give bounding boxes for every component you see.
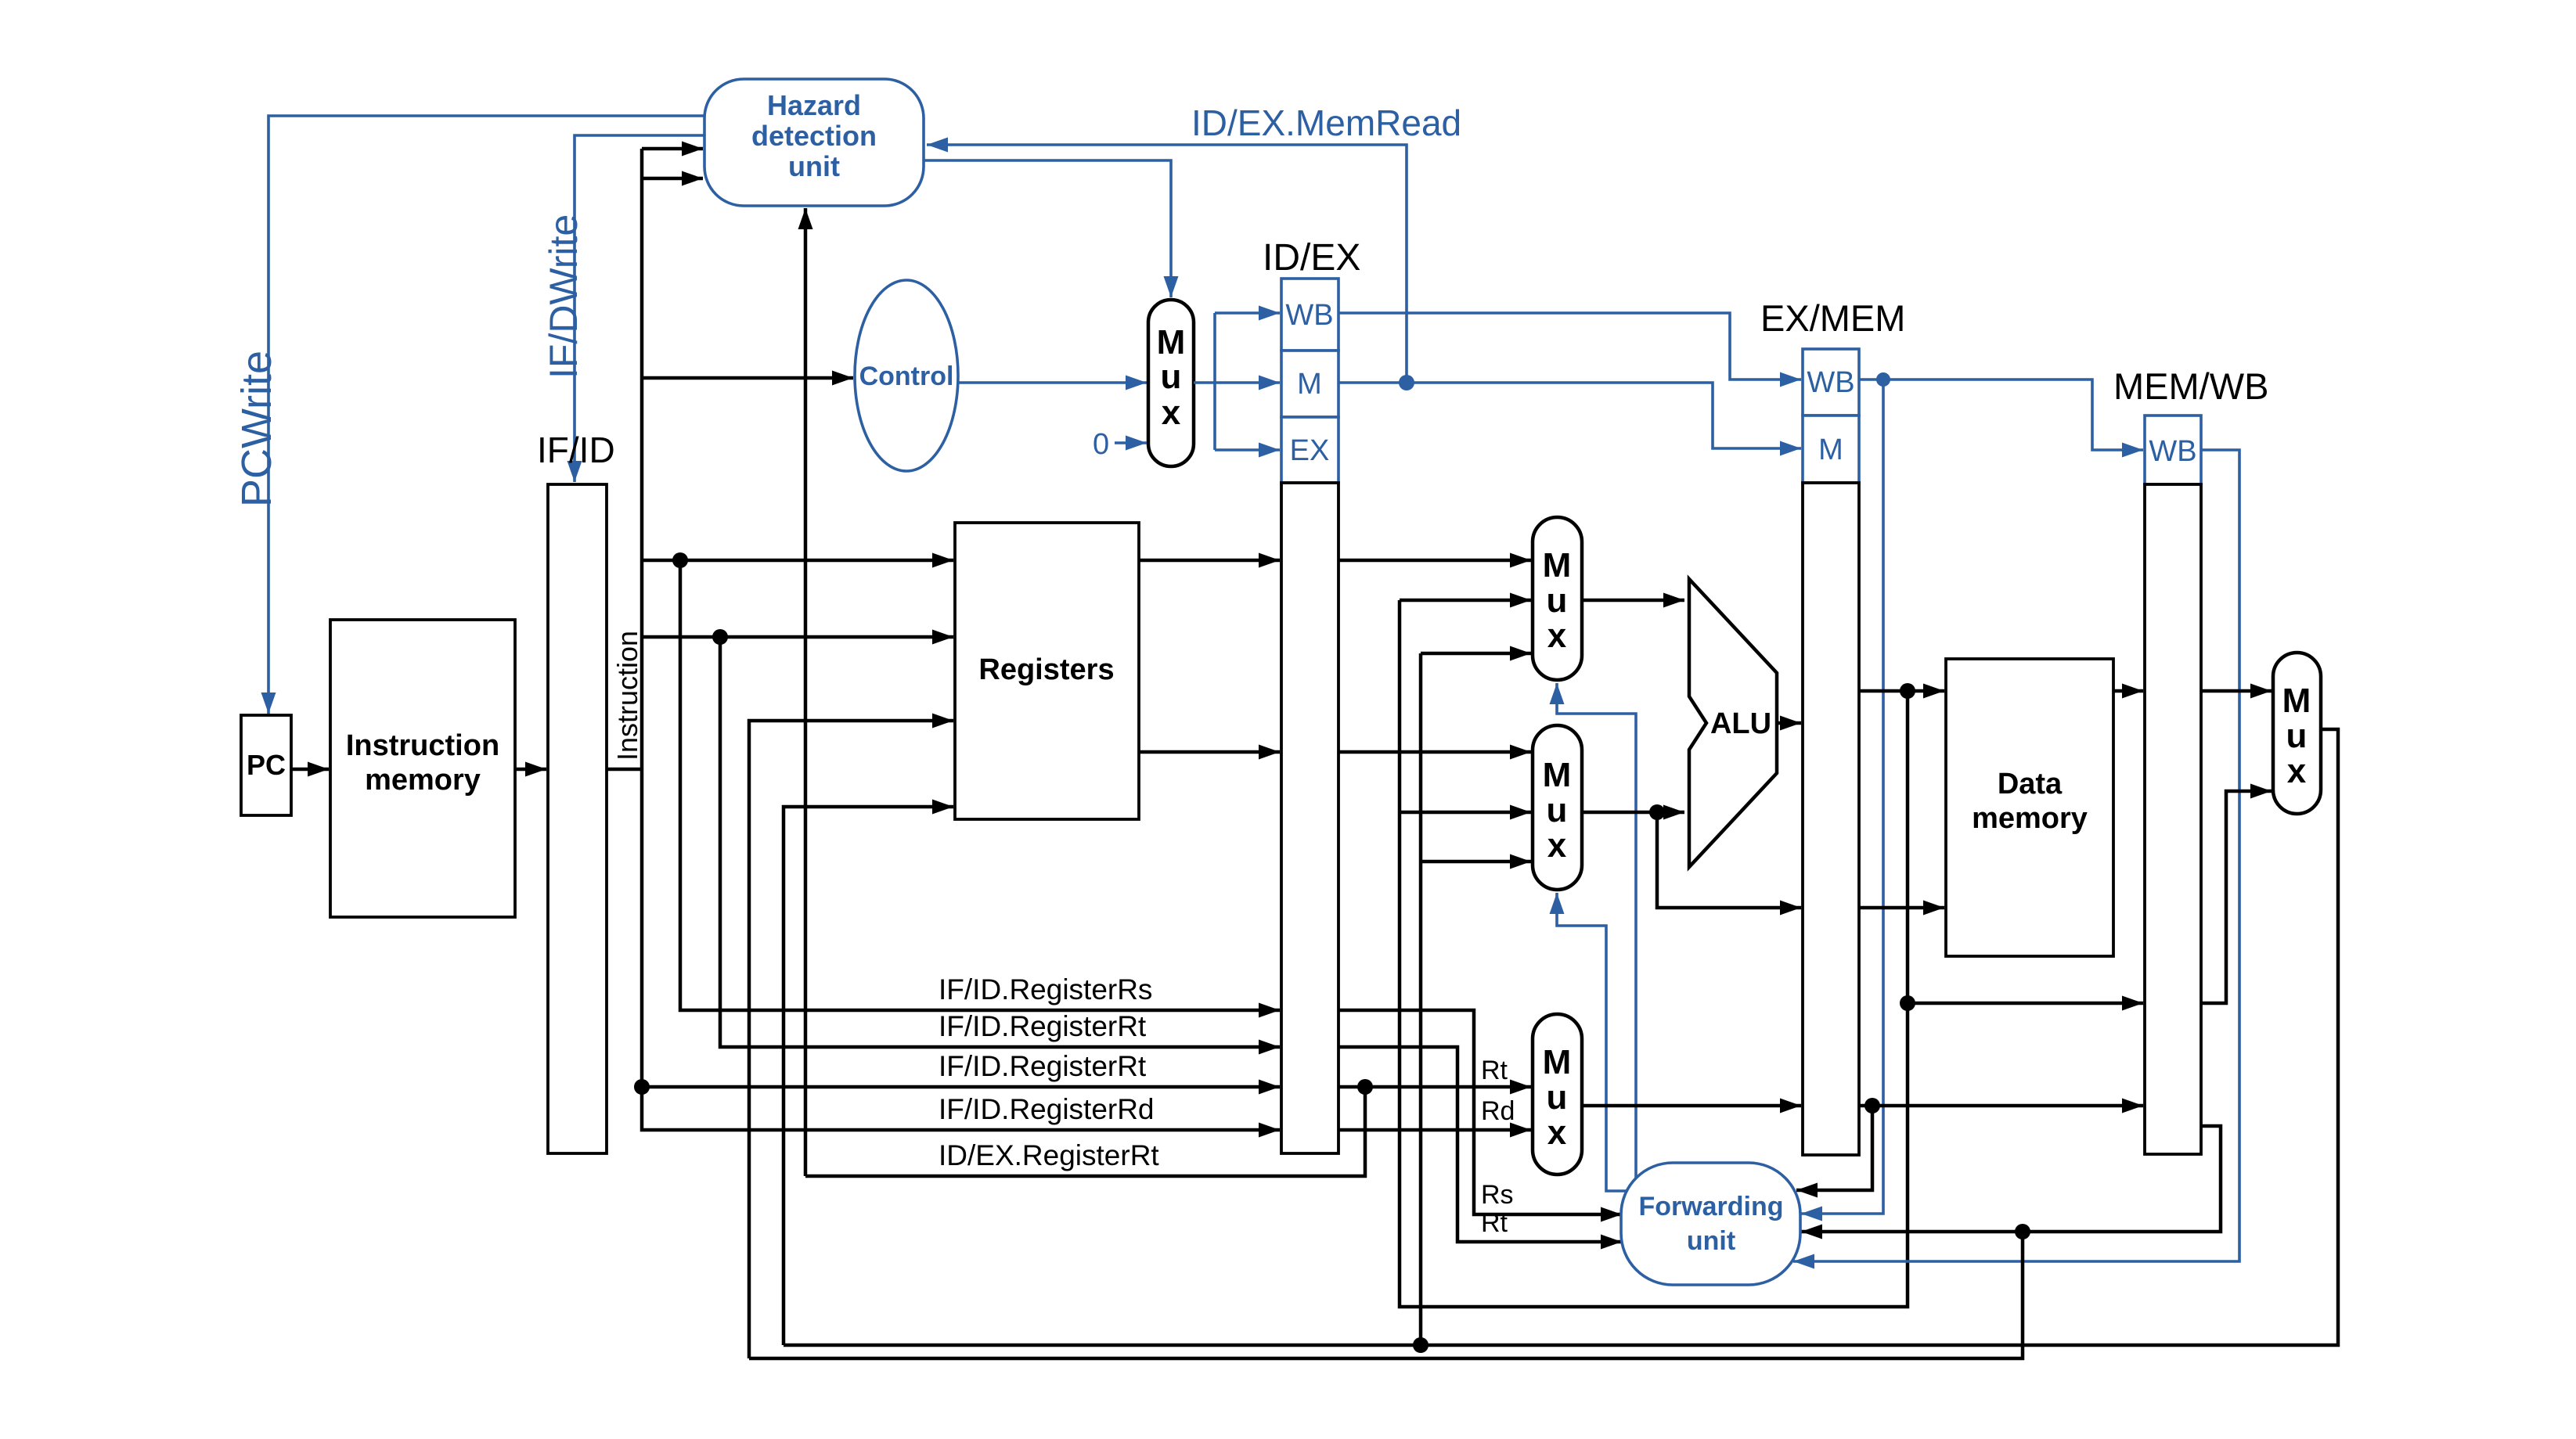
svg-text:Data: Data: [1998, 768, 2063, 800]
wire 0 into mux: [1115, 441, 1147, 444]
svg-text:Rt: Rt: [1481, 1056, 1508, 1085]
wire lower mux to ALU: [1582, 811, 1684, 815]
mux ALU input B: [1533, 725, 1582, 890]
register EX/MEM WB box: [1803, 349, 1859, 416]
wire read register 1: [642, 559, 953, 563]
svg-text:u: u: [1547, 791, 1568, 829]
svg-text:ALU: ALU: [1710, 707, 1771, 740]
svg-text:WB: WB: [2149, 435, 2196, 468]
register EX/MEM column: [1803, 483, 1859, 1155]
hazard detection unit: [704, 79, 924, 206]
register ID/EX EX box: [1281, 417, 1338, 483]
ALU: [1689, 579, 1777, 867]
svg-text:IF/ID: IF/ID: [537, 430, 615, 470]
svg-text:unit: unit: [788, 150, 840, 182]
wire EX/MEM forward path: [1400, 600, 1908, 1307]
node dot read reg 2 branch: [712, 629, 728, 645]
wire IF/ID.RegisterRs into ID/EX: [680, 560, 1280, 1010]
svg-text:M: M: [1297, 368, 1322, 401]
svg-text:x: x: [1547, 617, 1567, 655]
wire MEM/WB.WB to forwarding unit: [1793, 450, 2239, 1261]
svg-text:M: M: [1157, 323, 1186, 362]
wire Rt branch to hazard line: [805, 1087, 1365, 1176]
svg-text:PC: PC: [247, 749, 286, 781]
wire ALU result to data memory: [1859, 689, 1944, 693]
svg-text:Rd: Rd: [1481, 1096, 1515, 1126]
node dot ALU result branch: [1900, 683, 1915, 699]
node dot ALU result to MEM/WB branch: [1900, 995, 1915, 1011]
wire ID/EX.RegisterRt up into hazard unit: [804, 208, 808, 1176]
wire WB value forward path: [1419, 653, 1423, 1345]
svg-text:IF/ID.RegisterRt: IF/ID.RegisterRt: [939, 1050, 1147, 1082]
wire EX/MEM.WB to forwarding unit: [1801, 380, 1883, 1214]
svg-text:Control: Control: [859, 362, 954, 391]
svg-text:u: u: [2286, 717, 2308, 755]
svg-text:memory: memory: [1972, 802, 2088, 835]
svg-text:Forwarding: Forwarding: [1638, 1192, 1783, 1221]
wire read data 2 to ID/EX: [1139, 750, 1280, 754]
svg-text:0: 0: [1093, 428, 1109, 461]
wire read data 1 to ID/EX: [1139, 559, 1280, 563]
svg-text:Registers: Registers: [978, 653, 1114, 686]
wire instruction stub 1 into hazard unit: [642, 147, 703, 151]
wire WB value to upper mux input3: [1421, 652, 1531, 656]
wire hazard unit to control mux select: [924, 160, 1171, 297]
node dot on M line: [1399, 375, 1414, 390]
wire store data to EX/MEM: [1657, 812, 1801, 908]
svg-text:Rs: Rs: [1481, 1180, 1514, 1210]
wire instruction bus: [642, 149, 1280, 1130]
svg-text:M: M: [1543, 756, 1572, 794]
svg-text:x: x: [2287, 752, 2307, 790]
wire ID/EX Rt to RtRd mux: [1338, 1085, 1531, 1089]
wire mux to ID/EX control boxes: [1194, 313, 1280, 450]
register ID/EX M box: [1281, 351, 1338, 417]
wire EX/MEM.WB to MEM/WB.WB: [1859, 380, 2143, 450]
mux RtRd: [1533, 1014, 1582, 1175]
PC box: [241, 715, 291, 815]
svg-text:x: x: [1162, 394, 1181, 432]
mux control-zero: [1148, 300, 1194, 466]
wire write data from final mux: [784, 807, 953, 1345]
wire ALU to EX/MEM: [1777, 721, 1801, 725]
wire IF/ID to instruction bus: [607, 768, 642, 772]
wire write register from MEM/WB.Rd: [749, 721, 953, 1358]
wire upper mux to ALU: [1582, 599, 1684, 603]
wire ID/EX.WB to EX/MEM.WB: [1338, 313, 1801, 380]
wire ID/EX.M to EX/MEM.M: [1338, 383, 1801, 448]
svg-text:x: x: [1547, 826, 1567, 865]
svg-text:IF/ID.RegisterRs: IF/ID.RegisterRs: [939, 973, 1152, 1006]
svg-text:ID/EX.MemRead: ID/EX.MemRead: [1191, 103, 1461, 143]
Control oval: [855, 280, 958, 471]
wire instruction stub 2 into hazard unit: [642, 177, 703, 181]
node dot EX/MEM.Rd branch: [1864, 1098, 1880, 1113]
svg-text:Instruction: Instruction: [611, 631, 643, 761]
wire ID/EX B to lower ALU mux: [1338, 750, 1531, 754]
node dot EX/MEM.WB branch: [1876, 372, 1890, 387]
wire instruction to Control: [642, 376, 853, 380]
registers box: [955, 523, 1139, 819]
svg-text:EX/MEM: EX/MEM: [1760, 297, 1905, 339]
wire ALU result bypass into MEM/WB: [1908, 1002, 2143, 1006]
svg-text:WB: WB: [1807, 366, 1854, 399]
svg-text:PCWrite: PCWrite: [233, 351, 280, 507]
wire IF/DWrite from hazard unit to IF/ID: [575, 135, 704, 482]
svg-text:M: M: [2282, 682, 2311, 720]
mux write back: [2273, 653, 2321, 814]
register MEM/WB WB box: [2145, 416, 2201, 484]
wire ID/EX Rt to forwarding unit: [1338, 1047, 1622, 1242]
wire Rd through EX/MEM to MEM/WB: [1859, 1104, 2143, 1108]
wire MEM/WB read data to final mux: [2201, 689, 2272, 693]
node dot on instruction bus: [634, 1079, 650, 1095]
register ID/EX WB box: [1281, 279, 1338, 351]
svg-text:detection: detection: [751, 120, 877, 152]
svg-text:memory: memory: [365, 764, 481, 797]
svg-text:M: M: [1818, 433, 1843, 466]
instruction memory box: [330, 620, 515, 917]
wire IF/ID.RegisterRt second into ID/EX: [642, 1085, 1280, 1089]
wire IF/ID.RegisterRt into ID/EX: [720, 637, 1280, 1047]
wire ID/EX Rs to forwarding unit: [1338, 1010, 1622, 1214]
svg-text:ID/EX: ID/EX: [1263, 237, 1360, 279]
wire PCWrite from hazard unit to PC: [268, 116, 704, 714]
svg-text:IF/ID.RegisterRt: IF/ID.RegisterRt: [939, 1010, 1147, 1042]
svg-text:MEM/WB: MEM/WB: [2113, 365, 2268, 407]
register ID/EX column: [1281, 483, 1338, 1153]
node dot MEM/WB.Rd branch: [2015, 1224, 2030, 1239]
svg-text:IF/ID.RegisterRd: IF/ID.RegisterRd: [939, 1093, 1155, 1125]
mux ALU input A: [1533, 517, 1582, 680]
svg-text:x: x: [1547, 1113, 1567, 1152]
register IF/ID column: [548, 484, 607, 1153]
wire MEM/WB.Rd to write register: [749, 1232, 2023, 1358]
node dot WB forward junction: [1413, 1337, 1429, 1353]
wire read register 2: [642, 635, 953, 639]
node dot lower mux output: [1649, 804, 1665, 820]
wire Control to mux: [958, 381, 1147, 384]
wire ForwardB select: [1557, 893, 1628, 1191]
svg-text:WB: WB: [1285, 299, 1333, 332]
svg-text:ID/EX.RegisterRt: ID/EX.RegisterRt: [939, 1139, 1159, 1171]
wire WB value to lower mux input3: [1421, 860, 1531, 864]
svg-text:u: u: [1547, 581, 1568, 620]
svg-text:Rt: Rt: [1481, 1208, 1508, 1238]
svg-text:u: u: [1547, 1078, 1568, 1117]
wire instruction memory to IF/ID: [515, 768, 546, 772]
svg-text:Hazard: Hazard: [767, 89, 861, 121]
wire ForwardA select: [1557, 683, 1636, 1180]
svg-text:unit: unit: [1687, 1226, 1735, 1256]
register EX/MEM M box: [1803, 416, 1859, 483]
svg-text:EX: EX: [1290, 434, 1330, 467]
forwarding unit: [1621, 1163, 1800, 1285]
node dot Rt branch: [1357, 1079, 1373, 1095]
wire EX/MEM.Rd to forwarding unit: [1796, 1106, 1872, 1190]
wire forward to lower mux input2: [1400, 811, 1531, 815]
wire RtRd mux to EX/MEM: [1582, 1104, 1801, 1108]
wire store data to data memory: [1859, 906, 1944, 910]
wire data memory read data to MEM/WB: [2113, 689, 2143, 693]
wire ID/EX A to upper ALU mux: [1338, 559, 1531, 563]
data memory box: [1946, 659, 2113, 956]
svg-text:u: u: [1161, 358, 1182, 396]
wire forward to upper mux input2: [1400, 599, 1531, 603]
wire final mux output to write data: [784, 729, 2338, 1345]
svg-text:IF/DWrite: IF/DWrite: [542, 214, 585, 379]
svg-text:Instruction: Instruction: [346, 729, 499, 762]
svg-text:M: M: [1543, 546, 1572, 585]
node dot read reg 1 branch: [672, 552, 688, 568]
wire ID/EX Rd to RtRd mux: [1338, 1128, 1531, 1132]
wire ID/EX.MemRead into hazard unit: [927, 145, 1407, 383]
svg-text:M: M: [1543, 1043, 1572, 1081]
wire MEM/WB ALU result to final mux: [2201, 791, 2272, 1003]
wire MEM/WB.Rd to forwarding unit: [1801, 1126, 2221, 1232]
wire PC to instruction memory: [291, 768, 329, 772]
register MEM/WB column: [2145, 484, 2201, 1154]
